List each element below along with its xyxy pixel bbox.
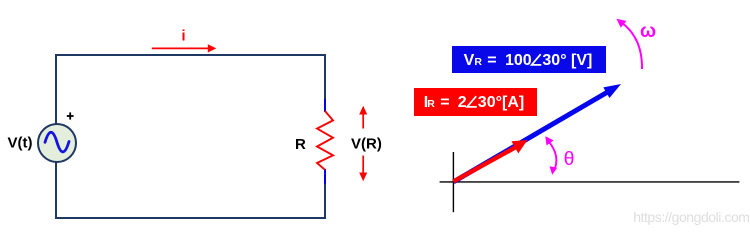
svg-text:V(R): V(R) [351,136,382,153]
svg-text:θ: θ [564,148,575,170]
svg-text:R: R [295,136,306,153]
svg-text:i: i [181,29,185,45]
svg-text:V: V [464,52,475,69]
svg-text:ω: ω [640,21,656,42]
svg-text:https://gongdoli.com: https://gongdoli.com [633,209,749,225]
svg-text:R: R [427,98,435,110]
svg-text:=: = [440,94,449,111]
svg-text:R: R [474,56,482,68]
svg-text:=: = [487,52,496,69]
svg-text:2: 2 [458,94,467,111]
svg-text:V(t): V(t) [8,135,33,152]
svg-text:30° [V]: 30° [V] [542,52,592,69]
svg-text:100: 100 [505,52,532,69]
svg-text:30°[A]: 30°[A] [478,94,524,111]
